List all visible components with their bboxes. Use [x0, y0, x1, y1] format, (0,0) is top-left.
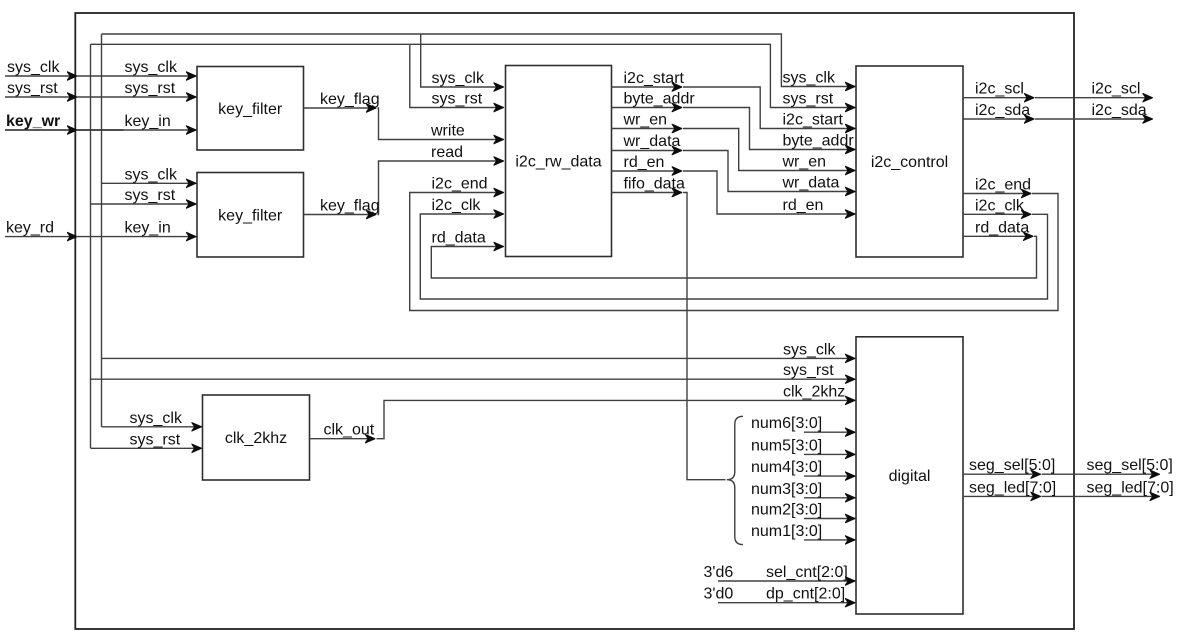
svg-text:i2c_rw_data: i2c_rw_data: [515, 154, 601, 171]
wire i2c_end out: [963, 193, 1031, 195]
svg-text:sys_rst: sys_rst: [125, 80, 176, 97]
svg-text:dp_cnt[2:0]: dp_cnt[2:0]: [766, 586, 845, 603]
wire i2c_clk out: [963, 213, 1031, 215]
svg-text:wr_en: wr_en: [782, 154, 827, 171]
wire sys_clk to key_filter U2: [102, 182, 197, 184]
wire fifo_data down to brace: [683, 193, 726, 480]
wire key_in to key_filter U1: [76, 129, 196, 131]
wire num4 to digital: [804, 475, 855, 477]
svg-text:sys_clk: sys_clk: [7, 59, 60, 76]
svg-text:key_in: key_in: [125, 220, 171, 237]
wire wr_data to i2c_control: [683, 151, 855, 192]
wire read to i2c_rw_data: [378, 161, 504, 215]
wire key_flag from U1: [304, 107, 377, 109]
wire seg_led out: [963, 495, 1041, 497]
svg-text:i2c_control: i2c_control: [871, 154, 948, 171]
svg-text:sys_clk: sys_clk: [125, 166, 178, 183]
wire sys_clk top run to i2c_control: [102, 34, 856, 87]
wire seg_sel output stub: [1042, 473, 1160, 475]
svg-text:wr_data: wr_data: [782, 175, 840, 192]
wire i2c_sda out: [963, 118, 1034, 120]
wire key_flag from U2: [304, 214, 377, 216]
wire byte_addr to i2c_control: [683, 108, 855, 150]
wire sys_rst vertical trunk: [90, 44, 92, 448]
svg-text:clk_out: clk_out: [324, 422, 375, 439]
block i2c_rw_data U3: [506, 66, 612, 257]
svg-text:sys_rst: sys_rst: [125, 187, 176, 204]
svg-text:rd_en: rd_en: [783, 197, 824, 214]
wire num6 to digital: [804, 431, 855, 433]
wire clk_out from clk_2khz: [310, 438, 376, 440]
svg-text:byte_addr: byte_addr: [783, 133, 855, 150]
svg-text:num6[3:0]: num6[3:0]: [751, 415, 822, 432]
svg-text:num1[3:0]: num1[3:0]: [751, 523, 822, 540]
svg-text:key_filter: key_filter: [218, 207, 283, 224]
wire sys_rst to key_filter U2: [91, 203, 197, 205]
svg-text:key_in: key_in: [125, 113, 171, 130]
wire i2c_sda output stub: [1035, 118, 1153, 120]
wire rd_en out: [612, 170, 682, 172]
wire key_wr input: [5, 129, 77, 131]
svg-text:rd_data: rd_data: [975, 219, 1029, 236]
wire fifo_data out: [612, 192, 682, 194]
svg-text:key_filter: key_filter: [218, 101, 283, 118]
wire key_wr stub: [77, 129, 124, 131]
wire rd_data out: [963, 235, 1033, 237]
svg-text:key_flag: key_flag: [320, 198, 380, 215]
wire sys_clk input: [5, 75, 77, 77]
svg-text:i2c_sda: i2c_sda: [975, 102, 1030, 119]
svg-text:sys_clk: sys_clk: [783, 341, 836, 358]
wire key_in to key_filter U2: [76, 236, 196, 238]
wire num2 to digital: [804, 518, 855, 520]
svg-text:sys_clk: sys_clk: [432, 70, 485, 87]
block clk_2khz U5: [203, 395, 310, 480]
wire i2c_scl output stub: [1035, 97, 1153, 99]
wire num1 to digital: [804, 539, 855, 541]
wire sys_clk to clk_2khz: [102, 426, 202, 428]
svg-text:clk_2khz: clk_2khz: [783, 383, 845, 400]
wire num3 to digital: [804, 497, 855, 499]
wire sys_rst top run to i2c_control: [91, 44, 856, 107]
wire key_rd input: [5, 236, 77, 238]
wire seg_led output stub: [1042, 495, 1160, 497]
wire byte_addr out: [612, 107, 682, 109]
svg-text:i2c_scl: i2c_scl: [975, 81, 1024, 98]
wire sys_rst input: [5, 96, 77, 98]
wire sys_rst to digital: [91, 378, 856, 380]
wire write to i2c_rw_data: [378, 108, 504, 140]
svg-text:read: read: [431, 144, 463, 161]
svg-text:seg_sel[5:0]: seg_sel[5:0]: [1087, 457, 1173, 474]
wire i2c_end feedback to i2c_rw_data: [410, 193, 1058, 311]
block i2c_control U4: [856, 66, 963, 257]
svg-text:rd_data: rd_data: [432, 230, 486, 247]
svg-text:sys_clk: sys_clk: [130, 410, 183, 427]
wire i2c_clk feedback to i2c_rw_data: [420, 214, 1047, 299]
wire wr_en out: [612, 128, 682, 130]
svg-text:rd_en: rd_en: [624, 154, 665, 171]
svg-text:sys_rst: sys_rst: [783, 362, 834, 379]
svg-text:sys_clk: sys_clk: [783, 70, 836, 87]
svg-text:num5[3:0]: num5[3:0]: [751, 437, 822, 454]
wire clk_2khz to digital: [377, 400, 856, 438]
wire i2c_start to i2c_control: [683, 87, 855, 129]
svg-text:num4[3:0]: num4[3:0]: [751, 459, 822, 476]
svg-text:digital: digital: [889, 468, 931, 485]
svg-text:3'd6: 3'd6: [704, 564, 734, 581]
wire sel_cnt to digital: [718, 580, 855, 582]
svg-text:key_flag: key_flag: [320, 91, 380, 108]
wire wr_en to i2c_control: [683, 129, 855, 171]
wire i2c_scl out: [963, 97, 1034, 99]
svg-text:seg_led[7:0]: seg_led[7:0]: [1087, 479, 1174, 496]
svg-text:sys_rst: sys_rst: [7, 80, 58, 97]
svg-text:sel_cnt[2:0]: sel_cnt[2:0]: [766, 564, 848, 581]
svg-text:i2c_start: i2c_start: [624, 70, 685, 87]
svg-text:sys_rst: sys_rst: [783, 91, 834, 108]
block digital U6: [856, 337, 963, 614]
svg-text:3'd0: 3'd0: [704, 586, 734, 603]
svg-text:num3[3:0]: num3[3:0]: [751, 481, 822, 498]
svg-text:num2[3:0]: num2[3:0]: [751, 502, 822, 519]
svg-text:key_wr: key_wr: [6, 113, 60, 130]
svg-text:byte_addr: byte_addr: [624, 91, 696, 108]
svg-text:key_rd: key_rd: [6, 220, 54, 237]
wire sys_rst to clk_2khz: [91, 447, 202, 449]
svg-text:i2c_clk: i2c_clk: [975, 197, 1025, 214]
wire sys_clk to key_filter U1: [76, 75, 196, 77]
wire rd_data feedback to i2c_rw_data: [431, 236, 1036, 278]
svg-text:i2c_sda: i2c_sda: [1092, 102, 1147, 119]
wire num5 to digital: [804, 453, 855, 455]
svg-text:i2c_scl: i2c_scl: [1092, 81, 1141, 98]
wire sys_rst branch to i2c_rw_data: [410, 44, 504, 107]
svg-text:sys_rst: sys_rst: [130, 431, 181, 448]
wire sys_clk branch to i2c_rw_data: [421, 34, 504, 87]
svg-text:i2c_start: i2c_start: [783, 112, 844, 129]
block key_filter U2: [197, 173, 304, 258]
svg-text:i2c_end: i2c_end: [975, 177, 1031, 194]
svg-text:sys_rst: sys_rst: [432, 91, 483, 108]
wire seg_sel out: [963, 473, 1041, 475]
wire wr_data out: [612, 150, 682, 152]
svg-text:seg_led[7:0]: seg_led[7:0]: [969, 479, 1056, 496]
brace grouping num inputs: [727, 416, 743, 544]
svg-text:clk_2khz: clk_2khz: [225, 430, 287, 447]
wire sys_rst to key_filter U1: [76, 96, 196, 98]
wire sys_clk to digital: [102, 357, 856, 359]
svg-text:i2c_clk: i2c_clk: [432, 197, 482, 214]
wire sys_clk vertical trunk: [101, 34, 103, 427]
svg-text:wr_data: wr_data: [623, 133, 681, 150]
svg-text:i2c_end: i2c_end: [432, 176, 488, 193]
svg-text:seg_sel[5:0]: seg_sel[5:0]: [969, 457, 1055, 474]
svg-text:sys_clk: sys_clk: [125, 59, 178, 76]
svg-text:fifo_data: fifo_data: [624, 176, 685, 193]
wire i2c_start out: [612, 86, 682, 88]
wire rd_en to i2c_control: [683, 171, 855, 214]
wire dp_cnt to digital: [718, 602, 855, 604]
block key_filter U1: [197, 67, 304, 151]
svg-text:wr_en: wr_en: [623, 112, 668, 129]
svg-text:write: write: [430, 123, 465, 140]
